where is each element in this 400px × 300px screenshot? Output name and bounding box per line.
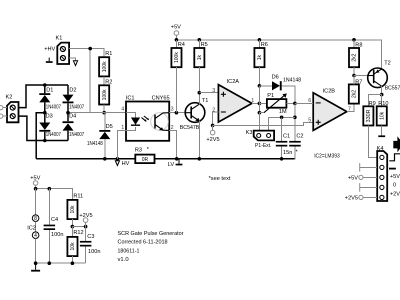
junction +5V at R4 [175,38,179,42]
svg-text:P1-Ext.: P1-Ext. [255,143,272,149]
terminal +5V bottom left [30,175,40,188]
wire node B to IC2B pin6 [295,102,313,104]
connector K3 [246,130,275,149]
resistor R9 [363,101,377,158]
title text block [118,231,184,263]
ground symbol bottom left [31,263,40,271]
junction T1 collector / R5 [198,91,202,95]
svg-text:1N4007: 1N4007 [69,132,84,138]
svg-text:R11: R11 [73,194,83,200]
output arrow annotation [393,136,400,152]
svg-text:1N4007: 1N4007 [69,104,84,110]
wire T1 emitter down to LV rail [198,121,200,159]
svg-text:IC2: IC2 [27,225,36,231]
svg-text:8: 8 [34,216,37,222]
wire IC2A pin2 to +2V5 [213,112,219,125]
wire T1 collector up [198,93,200,105]
svg-text:P1: P1 [267,93,274,99]
svg-text:IC2B: IC2B [323,88,336,94]
wire bridge right branch [67,85,69,141]
wire LV rail right [155,158,296,160]
junction ground rail at IC2 [34,261,38,265]
svg-text:+2V5: +2V5 [79,213,92,219]
wire node A to K3 pin1 [258,113,260,132]
transistor T1 [180,98,209,131]
ground symbol near K1 [46,58,53,63]
wire K4 pin4 stub [360,183,378,192]
svg-text:SCR Gate Pulse Generator: SCR Gate Pulse Generator [118,231,184,237]
resistor R4 [171,40,184,113]
wire K2 pin1 to bridge top [19,85,69,108]
wire T2 collector down [381,86,383,95]
diode D3 [39,114,61,138]
svg-text:3: 3 [171,106,174,112]
wire ground rail bottom [36,262,86,264]
transistor T2 [368,61,400,92]
optocoupler IC1 [121,96,173,141]
svg-text:K1: K1 [56,36,63,42]
svg-text:K2: K2 [6,95,13,101]
resistor R12 [67,227,83,264]
wire K1 pin1 down to HV+ node [89,49,91,113]
svg-text:2k2: 2k2 [352,90,358,98]
wire K1 pin2 [69,58,75,61]
junction R8 R7 T2 base [352,74,356,78]
junction IC1 pin1 at LV rail [116,157,120,161]
resistor R6 [254,40,267,86]
wire bridge left branch [44,85,46,141]
svg-text:D3: D3 [46,114,53,120]
junction R11 R12 [71,225,75,229]
svg-text:180611-1: 180611-1 [118,249,140,255]
svg-text:CNY65: CNY65 [152,96,170,102]
ground symbol LV [168,159,183,168]
net arrow down at K1 pin2 [73,61,77,66]
junction ground rail at C4 [48,261,52,265]
resistor R8 [349,40,362,76]
svg-text:D5: D5 [106,124,113,130]
connector K2 [6,95,19,123]
wire node B vertical [294,103,296,140]
potentiometer P1 [259,93,295,115]
wire R1 to R2 [103,76,105,85]
svg-text:5: 5 [308,118,311,124]
svg-text:R7: R7 [355,79,362,85]
junction C4 top [48,187,52,191]
svg-text:D4: D4 [69,114,76,120]
svg-text:R1: R1 [105,51,112,57]
wire K4 pin2 stub [360,163,378,172]
capacitor C3 [80,227,101,264]
wire collector node to R9 [368,95,381,107]
svg-text:Corrected 6-11-2018: Corrected 6-11-2018 [118,240,168,246]
svg-text:HV: HV [122,161,130,167]
wire K2 pin2 to bridge bottom [19,116,69,140]
resistor R2 [99,80,112,105]
capacitor C2 [289,134,303,159]
junction K1 pin1 [88,47,92,51]
svg-text:+2V5: +2V5 [206,137,219,143]
resistor R7 [349,76,363,104]
svg-text:100k: 100k [174,52,180,63]
junction node B at C line [293,116,297,120]
wire IC1 pin3 to T1 base [169,112,185,114]
terminal circle K2 pin2 [0,114,7,118]
terminal circle K2 pin1 [0,106,7,110]
svg-text:0: 0 [393,183,396,189]
svg-text:K4: K4 [377,146,384,152]
wire P1 wiper to node A [259,112,264,114]
terminal +5V at K4 pin3 [348,175,377,181]
junction +5V at R5 [198,38,202,42]
pulse baseline bar [389,168,396,170]
terminal +2V5 at K4 pin5 [345,195,377,201]
svg-text:1N4007: 1N4007 [46,132,61,138]
svg-text:4: 4 [121,106,124,112]
wire IC2A output [252,102,260,104]
svg-text:C4: C4 [51,217,58,223]
IC2 supply pin 8 [32,189,39,223]
svg-text:1k: 1k [197,54,203,60]
junction R6 bottom / D6 [258,84,262,88]
IC2 supply pin 4 [27,222,39,264]
svg-text:IC2=LM393: IC2=LM393 [314,153,340,159]
wire +5V bottom rail [36,189,73,200]
comparator IC2B [308,88,351,130]
junction ground rail at R12 [71,261,75,265]
capacitor C1 [276,117,293,159]
capacitor C4 [44,189,64,264]
junction +2V5 split [211,124,215,128]
junction T2 collector node [380,93,384,97]
svg-text:D6: D6 [272,75,279,81]
svg-text:IC1: IC1 [126,96,135,102]
svg-text:100n: 100n [88,249,100,255]
svg-text:10k: 10k [70,205,76,214]
wire LV rail left [36,158,135,160]
svg-text:R4: R4 [178,42,185,48]
svg-text:v1.0: v1.0 [118,257,129,263]
resistor R5 [194,40,207,93]
svg-text:C2: C2 [296,134,303,140]
resistor R11 [67,194,83,227]
junction IC2A output [258,102,262,106]
junction D5 at LV rail [103,157,107,161]
wire C1 K3 horizontal [269,117,295,131]
connector K4 [377,146,388,201]
junction T1 emitter at LV rail [198,157,202,161]
resistor R3 [135,147,155,163]
svg-text:D2: D2 [69,87,76,93]
ground symbol under R10 [378,135,385,137]
junction node A at wiper [258,111,262,115]
junction C1 at LV rail [280,157,284,161]
svg-text:R6: R6 [261,42,268,48]
net arrow HV below rail [115,159,129,167]
svg-text:1M: 1M [279,109,287,115]
svg-text:+5V: +5V [171,25,181,31]
svg-text:IC2A: IC2A [227,79,240,85]
svg-text:R5: R5 [201,42,208,48]
svg-text:330R: 330R [366,109,372,122]
diode D2 [63,87,85,110]
svg-text:15n: 15n [283,150,292,156]
wire +5V top rail [176,40,381,69]
diode D6 [259,75,301,104]
junction +5V at R8 [352,38,356,42]
op-amp IC2A [212,79,254,122]
svg-text:C1: C1 [283,134,290,140]
junction bridge right mid [66,111,70,115]
svg-text:+5V: +5V [348,176,358,182]
svg-text:10k: 10k [379,111,385,120]
wire +2V5 node to IC2B pin5 [213,122,314,125]
svg-text:T1: T1 [202,98,209,104]
svg-text:1k: 1k [257,54,263,60]
svg-text:R8: R8 [355,42,362,48]
svg-text:+2V5: +2V5 [390,192,400,198]
svg-text:2k2: 2k2 [352,53,358,61]
diode D4 [63,114,85,138]
svg-text:100k: 100k [102,61,108,72]
wire node A vertical [258,86,260,131]
svg-text:+5V: +5V [390,174,400,180]
svg-text:0R: 0R [142,157,149,163]
svg-text:*see text: *see text [209,176,231,182]
terminal +2V5 at IC2A [206,125,219,143]
junction R2 bottom [102,111,106,115]
diode D5 [87,113,113,159]
junction R4 bottom at base wire [175,111,179,115]
junction C3 top [84,225,88,229]
svg-text:1N4148: 1N4148 [87,141,103,147]
junction +5V at R6 [258,38,262,42]
svg-text:BC557: BC557 [385,86,400,92]
svg-text:10k: 10k [70,242,76,251]
svg-text:R10: R10 [378,101,388,107]
svg-text:3: 3 [212,88,215,94]
junction P1 right node [293,102,297,106]
wire K1 pin1 to R1 [69,49,104,58]
svg-text:BC547B: BC547B [180,125,200,131]
svg-text:LV: LV [168,162,175,168]
svg-text:R2: R2 [105,80,112,86]
svg-text:4: 4 [34,233,37,239]
junction IC1 pin2 at LV rail [175,157,179,161]
wire IC1 pin1 down to LV rail [117,130,126,158]
svg-text:C3: C3 [87,234,94,240]
resistor R1 [99,51,112,76]
wire T2 base [354,75,368,77]
svg-text:1N4007: 1N4007 [46,104,61,110]
wire R5 node to IC2A pin3 [199,92,218,94]
terminal +5V top [171,25,181,40]
wire R11 node to +2V5 [72,226,85,228]
junction +5V bottom at IC2 supply [34,187,38,191]
svg-text:R3: R3 [135,147,142,153]
junction bridge top [43,83,47,87]
junction bridge bottom [43,139,47,143]
svg-text:100n: 100n [51,232,63,238]
junction bridge left mid [43,111,47,115]
diode D1 [39,87,61,110]
connector K1 [44,36,69,65]
wire R2 to HV+ node [103,105,105,113]
junction C1 top [280,116,284,120]
terminal +2V5 bottom [79,213,92,227]
pulse waveform annotation [389,154,400,161]
svg-text:+2V5: +2V5 [345,196,358,202]
wire IC1 pin2 to LV rail [169,130,177,158]
svg-text:1N4148: 1N4148 [283,78,301,84]
svg-text:K3: K3 [246,130,253,136]
svg-text:D1: D1 [46,87,53,93]
svg-text:T2: T2 [384,61,391,67]
svg-text:+HV: +HV [44,47,55,53]
svg-text:100k: 100k [102,89,108,100]
resistor R10 [377,95,389,136]
IC1 internal phototransistor [151,113,170,131]
wire bridge left mid to LV rail [36,113,45,159]
wire IC2B output to R7 [347,104,354,112]
svg-text:R9: R9 [369,101,376,107]
IC1 internal LED [126,113,149,131]
svg-text:R12: R12 [73,230,83,236]
wire HV+ horizontal node [68,112,126,114]
